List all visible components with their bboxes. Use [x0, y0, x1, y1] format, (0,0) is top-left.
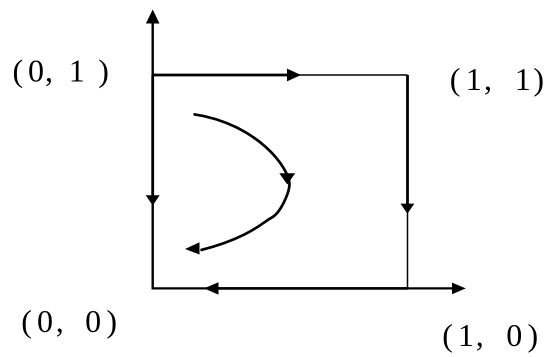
label (0, 1)	[13, 53, 109, 89]
inner curve end arrowhead	[185, 242, 200, 254]
top edge direction arrow shaft	[153, 74, 288, 77]
svg-text:0: 0	[506, 317, 522, 353]
svg-text:1: 1	[458, 317, 474, 353]
svg-text:1: 1	[515, 61, 531, 97]
svg-text:): )	[528, 317, 539, 353]
svg-text:1: 1	[466, 61, 482, 97]
svg-text:): )	[533, 61, 544, 97]
top edge (0,1)-(1,1)	[153, 74, 408, 76]
svg-text:): )	[106, 303, 117, 339]
x-axis	[152, 287, 453, 289]
bottom edge direction arrow shaft	[218, 287, 408, 290]
svg-text:(: (	[13, 53, 24, 89]
right edge (1,1)-(1,0)	[407, 75, 409, 288]
right edge direction arrowhead	[401, 204, 415, 214]
label (1, 0)	[442, 317, 538, 353]
x-axis arrowhead	[452, 283, 466, 295]
y-axis arrowhead	[146, 10, 160, 24]
svg-text:,: ,	[45, 53, 53, 89]
svg-text:,: ,	[484, 61, 492, 97]
svg-text:,: ,	[56, 303, 64, 339]
y-axis	[151, 14, 153, 289]
svg-text:(: (	[450, 61, 461, 97]
svg-text:0: 0	[28, 53, 44, 89]
top edge direction arrowhead	[287, 69, 301, 82]
svg-text:,: ,	[476, 317, 484, 353]
svg-text:0: 0	[85, 303, 101, 339]
left edge direction arrow shaft	[151, 75, 154, 196]
left edge direction arrowhead	[146, 195, 160, 205]
svg-text:0: 0	[37, 303, 53, 339]
right edge direction arrow shaft	[406, 75, 409, 205]
bottom edge direction arrowhead	[204, 282, 219, 294]
svg-text:(: (	[442, 317, 453, 353]
svg-text:): )	[98, 53, 109, 89]
label (0, 0)	[21, 303, 117, 339]
svg-text:1: 1	[69, 53, 85, 89]
inner curve mid arrowhead	[279, 173, 295, 184]
label (1, 1)	[450, 61, 544, 97]
inner curve	[194, 114, 290, 250]
svg-text:(: (	[21, 303, 32, 339]
